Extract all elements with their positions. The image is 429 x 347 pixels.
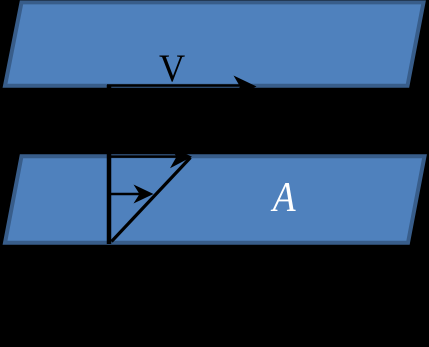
svg-text:A: A bbox=[270, 174, 296, 220]
svg-text:V: V bbox=[159, 47, 185, 90]
